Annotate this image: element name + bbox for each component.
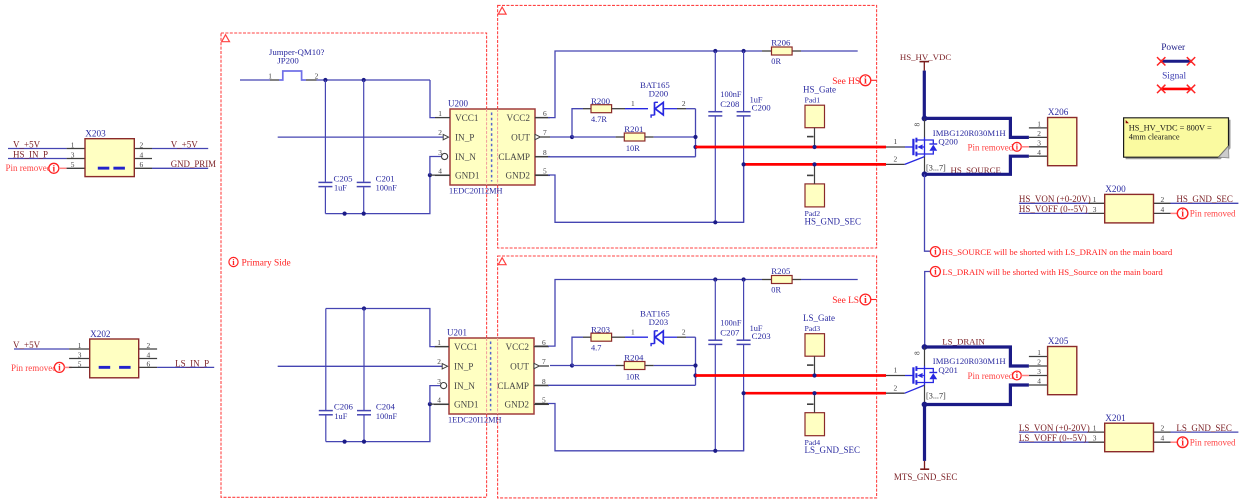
svg-text:7: 7 bbox=[542, 357, 546, 366]
svg-text:Pin removed: Pin removed bbox=[1190, 209, 1236, 219]
svg-text:V_+5V: V_+5V bbox=[171, 139, 199, 149]
note callout HS_SOURCE shorted bbox=[930, 247, 940, 258]
svg-text:X206: X206 bbox=[1048, 107, 1069, 117]
svg-text:Signal: Signal bbox=[1162, 71, 1186, 81]
diode D200 BAT165 bbox=[654, 102, 656, 115]
wire HS_SOURCE to LS_DRAIN link bbox=[925, 174, 931, 251]
capacitor C207 100nF bbox=[714, 280, 716, 340]
wire source to X205 thick bbox=[925, 385, 1029, 405]
svg-text:GND1: GND1 bbox=[454, 400, 479, 410]
resistor R206 0R bbox=[772, 47, 793, 55]
svg-text:1: 1 bbox=[437, 338, 441, 347]
wire HS_GND_SEC bbox=[1171, 202, 1239, 204]
svg-text:i: i bbox=[934, 248, 937, 258]
pin removed marker X200 pin4 bbox=[1171, 212, 1178, 214]
svg-text:HS_SOURCE will be shorted with: HS_SOURCE will be shorted with LS_DRAIN … bbox=[942, 247, 1173, 257]
svg-text:1: 1 bbox=[631, 328, 635, 337]
svg-text:3: 3 bbox=[1093, 434, 1097, 443]
resistor R203 4.7R bbox=[572, 337, 583, 365]
svg-text:C205: C205 bbox=[334, 173, 354, 183]
svg-text:2: 2 bbox=[315, 72, 319, 81]
svg-text:3: 3 bbox=[71, 150, 75, 159]
svg-text:4: 4 bbox=[1037, 377, 1041, 386]
wire HS_GND_SEC red bbox=[744, 163, 886, 166]
svg-text:Primary Side: Primary Side bbox=[242, 258, 291, 268]
svg-text:Pin removed: Pin removed bbox=[1190, 437, 1236, 447]
svg-text:R206: R206 bbox=[771, 37, 791, 47]
wire LS_GND_SEC bbox=[1171, 431, 1239, 433]
pad Pad2 gnd bbox=[805, 184, 825, 207]
svg-text:C201: C201 bbox=[376, 173, 395, 183]
svg-text:V_+5V: V_+5V bbox=[13, 139, 41, 149]
svg-text:4: 4 bbox=[437, 396, 441, 405]
svg-text:3: 3 bbox=[1093, 205, 1097, 214]
svg-text:2: 2 bbox=[1161, 195, 1165, 204]
resistor R204 10R bbox=[572, 365, 616, 367]
svg-text:C200: C200 bbox=[752, 103, 772, 113]
wire LS_VOFF bbox=[1019, 441, 1089, 443]
svg-text:LS_Gate: LS_Gate bbox=[803, 313, 835, 323]
wire GND1 rail bbox=[325, 175, 430, 214]
wire GND2 rail LS bbox=[535, 403, 548, 405]
capacitor C205 bbox=[324, 80, 326, 182]
svg-text:1EDC20I12MH: 1EDC20I12MH bbox=[448, 415, 501, 424]
svg-text:R200: R200 bbox=[591, 96, 611, 106]
wire gate node vertical LS bbox=[695, 337, 697, 385]
wire GND1 stub U201 bbox=[430, 403, 449, 405]
region box Primary Side bbox=[221, 33, 487, 497]
svg-text:X203: X203 bbox=[85, 129, 106, 139]
svg-text:C207: C207 bbox=[720, 328, 740, 338]
wire LS_IN_P bbox=[157, 366, 214, 368]
svg-text:5: 5 bbox=[543, 167, 547, 176]
wire GND_PRIM bbox=[152, 167, 208, 169]
svg-text:4: 4 bbox=[1161, 205, 1165, 214]
svg-text:6: 6 bbox=[543, 109, 547, 118]
svg-text:[3...7]: [3...7] bbox=[926, 392, 946, 401]
capacitor C204 bbox=[363, 309, 365, 411]
svg-text:4: 4 bbox=[140, 150, 144, 159]
svg-text:10R: 10R bbox=[626, 144, 640, 153]
svg-text:D200: D200 bbox=[649, 88, 669, 98]
svg-text:LS_VON (+0-20V): LS_VON (+0-20V) bbox=[1019, 423, 1090, 433]
note Primary Side bbox=[229, 257, 238, 267]
svg-text:Pin removed: Pin removed bbox=[968, 371, 1014, 381]
svg-text:OUT: OUT bbox=[510, 361, 529, 371]
svg-text:C208: C208 bbox=[720, 99, 740, 109]
svg-text:100nF: 100nF bbox=[376, 184, 398, 193]
wire LS_VON bbox=[1019, 431, 1089, 433]
svg-text:X200: X200 bbox=[1105, 184, 1126, 194]
svg-text:HS_Gate: HS_Gate bbox=[803, 84, 836, 94]
svg-text:GND2: GND2 bbox=[506, 171, 531, 181]
svg-text:Pad1: Pad1 bbox=[805, 96, 821, 105]
connector X202 bbox=[69, 348, 90, 350]
svg-text:X205: X205 bbox=[1048, 336, 1069, 346]
svg-text:IN_N: IN_N bbox=[455, 152, 476, 162]
svg-text:7: 7 bbox=[543, 128, 547, 137]
svg-text:0R: 0R bbox=[771, 285, 781, 294]
svg-text:2: 2 bbox=[1037, 129, 1041, 138]
svg-text:5: 5 bbox=[71, 160, 75, 169]
svg-text:Power: Power bbox=[1161, 43, 1186, 53]
svg-text:VCC1: VCC1 bbox=[455, 113, 479, 123]
wire GND1 rail U201 bbox=[326, 404, 430, 442]
svg-text:C204: C204 bbox=[376, 402, 396, 412]
svg-text:R201: R201 bbox=[624, 124, 643, 134]
svg-text:1: 1 bbox=[78, 341, 82, 350]
wire drain to X206 thick bbox=[925, 118, 1029, 137]
wire VCC2 rail LS bbox=[535, 345, 548, 347]
svg-text:i: i bbox=[1181, 209, 1184, 220]
wire V_+5V LS input bbox=[14, 348, 69, 350]
svg-text:Q201: Q201 bbox=[938, 365, 958, 375]
svg-text:6: 6 bbox=[140, 160, 144, 169]
svg-text:100nF: 100nF bbox=[720, 90, 742, 99]
svg-text:4: 4 bbox=[1161, 434, 1165, 443]
svg-text:i: i bbox=[934, 268, 937, 278]
gate driver U201 bbox=[434, 328, 549, 425]
svg-text:4.7: 4.7 bbox=[591, 344, 601, 353]
wire HS_VOFF bbox=[1019, 212, 1089, 214]
svg-text:U200: U200 bbox=[448, 99, 468, 109]
svg-text:2: 2 bbox=[437, 357, 441, 366]
svg-text:6: 6 bbox=[542, 338, 546, 347]
svg-text:IN_N: IN_N bbox=[454, 381, 475, 391]
svg-text:D203: D203 bbox=[649, 317, 669, 327]
wire OUT HS bbox=[550, 136, 572, 138]
svg-text:10R: 10R bbox=[626, 372, 640, 381]
svg-text:IN_P: IN_P bbox=[454, 361, 473, 371]
svg-text:Pad3: Pad3 bbox=[805, 324, 821, 333]
svg-text:GND1: GND1 bbox=[455, 171, 480, 181]
wire HS_IN_P bbox=[8, 158, 67, 160]
connector X205 bbox=[1029, 356, 1048, 358]
svg-text:3: 3 bbox=[78, 350, 82, 359]
svg-text:8: 8 bbox=[913, 123, 922, 127]
svg-text:1: 1 bbox=[894, 366, 898, 375]
capacitor C201 bbox=[363, 80, 365, 182]
svg-text:2: 2 bbox=[438, 128, 442, 137]
wire LS_GND_SEC red bbox=[744, 392, 886, 395]
svg-text:LS_DRAIN: LS_DRAIN bbox=[942, 336, 985, 346]
svg-text:1: 1 bbox=[631, 99, 635, 108]
svg-text:HS_HV_VDC: HS_HV_VDC bbox=[900, 52, 951, 62]
wire GND1 stub bbox=[430, 174, 450, 176]
svg-text:MTS_GND_SEC: MTS_GND_SEC bbox=[894, 472, 958, 482]
svg-text:i: i bbox=[1181, 437, 1184, 448]
svg-text:Pin removed: Pin removed bbox=[968, 142, 1014, 152]
wire CLAMP LS bbox=[535, 384, 548, 386]
svg-text:V_+5V: V_+5V bbox=[13, 340, 41, 350]
wire LS_Gate red bbox=[696, 374, 887, 377]
wire IN_P U201 bbox=[278, 365, 443, 367]
svg-text:0R: 0R bbox=[771, 57, 781, 66]
svg-text:CLAMP: CLAMP bbox=[498, 152, 530, 162]
wire IN_N U201 bbox=[430, 386, 440, 405]
wire source to X206 thick bbox=[925, 156, 1029, 174]
svg-text:5: 5 bbox=[78, 359, 82, 368]
svg-text:6: 6 bbox=[147, 359, 151, 368]
svg-text:LS_IN_P: LS_IN_P bbox=[175, 358, 209, 368]
svg-text:3: 3 bbox=[1037, 367, 1041, 376]
svg-text:100nF: 100nF bbox=[376, 412, 398, 421]
svg-text:2: 2 bbox=[140, 140, 144, 149]
svg-text:8: 8 bbox=[543, 148, 547, 157]
wire V_+5V bbox=[8, 148, 67, 150]
capacitor C208 100nF bbox=[714, 51, 716, 111]
svg-text:2: 2 bbox=[894, 383, 898, 392]
gate driver U200 bbox=[435, 99, 550, 196]
svg-text:X202: X202 bbox=[90, 329, 111, 339]
svg-text:See LS: See LS bbox=[832, 296, 859, 306]
svg-text:3: 3 bbox=[1037, 139, 1041, 148]
svg-text:4: 4 bbox=[438, 167, 442, 176]
svg-text:2: 2 bbox=[147, 341, 151, 350]
capacitor C200 1uF bbox=[743, 51, 745, 111]
svg-text:2: 2 bbox=[1037, 358, 1041, 367]
connector X201 bbox=[1089, 431, 1105, 433]
svg-text:HS_GND_SEC: HS_GND_SEC bbox=[1176, 194, 1233, 204]
svg-text:i: i bbox=[52, 164, 55, 174]
svg-text:8: 8 bbox=[913, 351, 922, 355]
svg-text:1: 1 bbox=[894, 137, 898, 146]
transistor Q200 bbox=[886, 116, 1006, 178]
wire jumper to VCC1 bbox=[317, 79, 431, 81]
svg-text:U201: U201 bbox=[447, 328, 467, 338]
resistor R201 10R bbox=[572, 136, 616, 138]
svg-text:GND2: GND2 bbox=[505, 400, 530, 410]
connector X206 bbox=[1029, 127, 1048, 129]
svg-text:2: 2 bbox=[682, 328, 686, 337]
wire HS_Gate red bbox=[696, 146, 887, 149]
svg-text:OUT: OUT bbox=[511, 132, 530, 142]
svg-text:LS_GND_SEC: LS_GND_SEC bbox=[1176, 423, 1232, 433]
region box edge overlays bbox=[487, 109, 498, 414]
wire HS_VON bbox=[1019, 202, 1089, 204]
connector X203 bbox=[67, 148, 85, 150]
svg-text:Pin removed: Pin removed bbox=[6, 163, 52, 173]
svg-text:Q200: Q200 bbox=[938, 137, 958, 147]
power port MTS_GND_SEC bbox=[923, 405, 926, 461]
svg-text:HS_VON (+0-20V): HS_VON (+0-20V) bbox=[1019, 194, 1091, 204]
connector X200 bbox=[1089, 202, 1105, 204]
svg-text:C203: C203 bbox=[752, 331, 772, 341]
wire VCC1 rail U201 bbox=[326, 309, 435, 347]
svg-text:100nF: 100nF bbox=[720, 318, 742, 327]
svg-text:4mm clearance: 4mm clearance bbox=[1129, 133, 1180, 142]
svg-text:1: 1 bbox=[438, 109, 442, 118]
svg-text:LS_GND_SEC: LS_GND_SEC bbox=[805, 445, 861, 455]
svg-text:4.7R: 4.7R bbox=[591, 115, 607, 124]
svg-text:8: 8 bbox=[542, 377, 546, 386]
pad Pad4 gnd bbox=[805, 413, 825, 436]
svg-text:R204: R204 bbox=[624, 353, 644, 363]
wire IN_P bbox=[278, 136, 444, 138]
note callout LS_DRAIN shorted bbox=[925, 272, 931, 348]
region box LS secondary bbox=[498, 256, 877, 498]
svg-text:1: 1 bbox=[1093, 195, 1097, 204]
svg-text:4: 4 bbox=[1037, 148, 1041, 157]
svg-text:Pin removed: Pin removed bbox=[11, 363, 57, 373]
svg-text:i: i bbox=[58, 364, 61, 374]
svg-text:LS_VOFF (0--5V): LS_VOFF (0--5V) bbox=[1019, 433, 1087, 443]
svg-text:IN_P: IN_P bbox=[455, 132, 474, 142]
svg-text:1: 1 bbox=[1037, 120, 1041, 129]
svg-text:HS_IN_P: HS_IN_P bbox=[13, 149, 48, 159]
svg-text:2: 2 bbox=[894, 155, 898, 164]
svg-text:VCC1: VCC1 bbox=[454, 342, 478, 352]
svg-text:i: i bbox=[864, 295, 867, 306]
diode D203 BAT165 bbox=[654, 331, 656, 344]
svg-text:1: 1 bbox=[1037, 348, 1041, 357]
svg-text:1: 1 bbox=[1093, 424, 1097, 433]
svg-text:3: 3 bbox=[438, 148, 442, 157]
wire drain to X205 thick bbox=[925, 347, 1029, 366]
transistor Q201 bbox=[886, 344, 1006, 407]
svg-text:4: 4 bbox=[147, 350, 151, 359]
svg-text:HS_GND_SEC: HS_GND_SEC bbox=[805, 216, 862, 226]
svg-text:1EDC20I12MH: 1EDC20I12MH bbox=[449, 186, 502, 195]
svg-text:[3...7]: [3...7] bbox=[926, 163, 946, 172]
svg-text:X201: X201 bbox=[1105, 413, 1126, 423]
svg-text:GND_PRIM: GND_PRIM bbox=[171, 159, 216, 169]
resistor R205 0R bbox=[772, 276, 793, 284]
svg-text:1uF: 1uF bbox=[334, 184, 347, 193]
capacitor C203 1uF bbox=[743, 280, 745, 340]
svg-text:R203: R203 bbox=[591, 324, 611, 334]
pin removed marker X201 pin4 bbox=[1171, 441, 1178, 443]
svg-text:VCC2: VCC2 bbox=[506, 342, 530, 352]
svg-text:i: i bbox=[864, 76, 867, 87]
svg-text:VCC2: VCC2 bbox=[507, 113, 531, 123]
wire OUT LS bbox=[550, 365, 572, 367]
svg-text:2: 2 bbox=[1161, 424, 1165, 433]
svg-text:R205: R205 bbox=[771, 266, 791, 276]
svg-text:See HS: See HS bbox=[832, 77, 860, 87]
wire IN_N bbox=[430, 157, 441, 176]
wire CLAMP HS bbox=[535, 156, 548, 158]
wire gate node vertical HS bbox=[695, 109, 697, 157]
svg-text:LS_DRAIN will be shorted with: LS_DRAIN will be shorted with HS_Source … bbox=[942, 267, 1163, 277]
region box HS secondary bbox=[498, 5, 877, 248]
capacitor C206 bbox=[325, 309, 327, 411]
wire VCC2 rail HS bbox=[535, 117, 548, 119]
svg-text:HS_HV_VDC = 800V =: HS_HV_VDC = 800V = bbox=[1129, 124, 1212, 133]
note HS_HV_VDC clearance bbox=[1124, 118, 1231, 159]
resistor R200 4.7R bbox=[572, 109, 583, 137]
svg-text:1uF: 1uF bbox=[334, 412, 347, 421]
svg-text:1: 1 bbox=[268, 72, 272, 81]
wire GND2 rail HS bbox=[535, 174, 548, 176]
svg-text:CLAMP: CLAMP bbox=[497, 381, 529, 391]
svg-text:C206: C206 bbox=[334, 402, 354, 412]
wire V_+5V right bbox=[152, 148, 208, 150]
wire HS_HV_VDC thick bbox=[923, 71, 926, 119]
svg-text:HS_VOFF (0--5V): HS_VOFF (0--5V) bbox=[1019, 204, 1088, 214]
svg-text:1: 1 bbox=[71, 140, 75, 149]
svg-text:2: 2 bbox=[682, 99, 686, 108]
svg-text:JP200: JP200 bbox=[277, 56, 299, 66]
